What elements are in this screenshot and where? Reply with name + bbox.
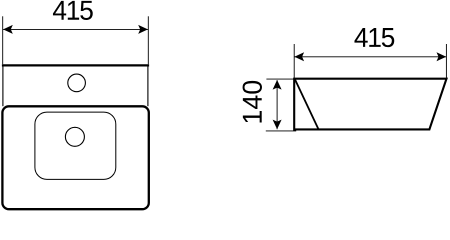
bowl outer rim (thick rounded rectangle) xyxy=(2,106,148,209)
drain hole xyxy=(65,127,84,146)
arrowhead right (plan 415) xyxy=(138,25,148,34)
dimension label 140 (rotated) xyxy=(243,81,262,123)
dimension label 415 (plan view) xyxy=(53,1,93,20)
dimension label 415 (side view) xyxy=(354,28,394,47)
extension tick top (140) xyxy=(266,78,294,80)
basin deck right edge xyxy=(147,65,149,106)
side view inner wall diagonal xyxy=(295,79,319,129)
extension tick bottom (140) xyxy=(266,130,296,132)
arrowhead left (side 415) xyxy=(294,52,304,61)
extension line right (side 415) xyxy=(445,44,447,78)
inner basin (rounded rectangle) xyxy=(35,112,116,179)
extension line left (side 415) xyxy=(293,44,295,78)
faucet hole xyxy=(68,74,86,92)
dimension line 140 xyxy=(276,80,278,129)
dimension line 415 (side view) xyxy=(294,56,446,58)
arrowhead left (plan 415) xyxy=(3,25,13,34)
arrowhead up (140) xyxy=(273,80,282,90)
extension line right (plan 415) xyxy=(147,16,149,64)
dimension line 415 (plan view) xyxy=(3,28,148,30)
extension line left (plan 415) xyxy=(2,16,4,64)
arrowhead down (140) xyxy=(273,120,282,130)
side view body outline xyxy=(294,79,446,130)
basin deck left edge xyxy=(2,65,4,106)
basin deck top edge xyxy=(2,64,149,66)
arrowhead right (side 415) xyxy=(437,52,447,61)
